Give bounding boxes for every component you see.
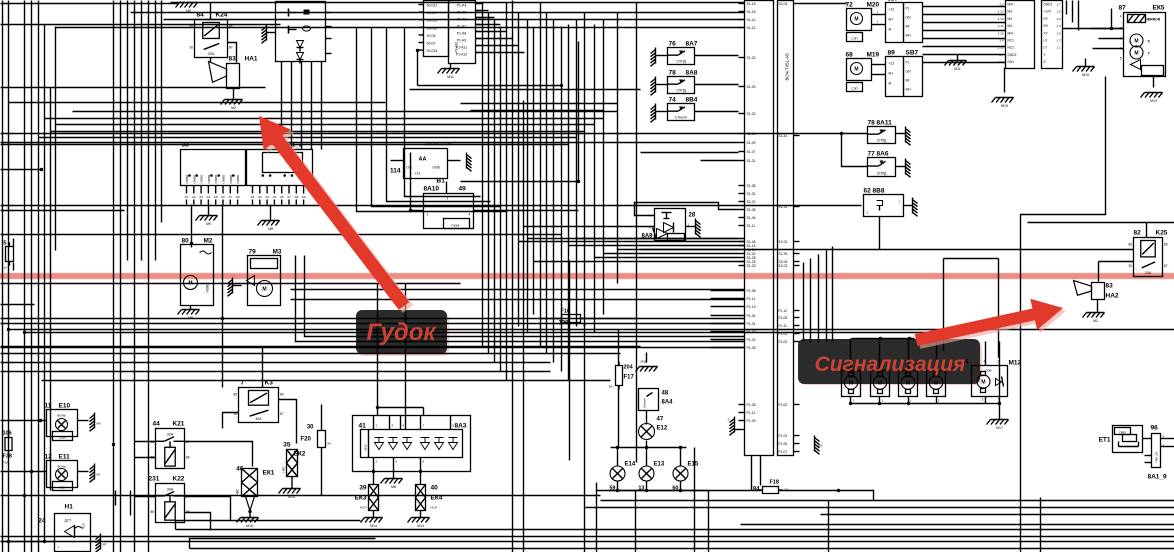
- svg-text:EК4: EК4: [431, 495, 443, 502]
- svg-text:M5: M5: [188, 316, 193, 320]
- svg-text:M2: M2: [1093, 319, 1098, 323]
- wire: [78, 471, 89, 473]
- wire: [641, 152, 739, 154]
- wire: [821, 514, 1174, 516]
- fuse F20: [301, 405, 332, 496]
- junction: [416, 49, 419, 52]
- motor M2 pump: [181, 238, 214, 310]
- label box Сигнализация: [800, 342, 982, 385]
- svg-text:PL: PL: [906, 7, 910, 11]
- wire: [134, 1, 136, 552]
- svg-text:Вкл/рег: Вкл/рег: [643, 398, 647, 408]
- svg-text:А6: А6: [221, 195, 225, 199]
- wire: [1072, 1, 1074, 23]
- wire: [908, 339, 910, 373]
- wire: [357, 29, 507, 212]
- svg-text:3: 3: [982, 398, 984, 402]
- svg-text:60: 60: [672, 486, 678, 492]
- svg-text:А8: А8: [236, 195, 240, 199]
- svg-text:M9: M9: [206, 222, 211, 226]
- BCM connector bus: [711, 1, 800, 456]
- svg-text:8А10: 8А10: [424, 186, 440, 193]
- wire: [680, 448, 682, 467]
- svg-text:M4-: M4-: [1008, 24, 1014, 28]
- wire: [1, 87, 266, 89]
- switch 8A11: [868, 120, 911, 146]
- wire: [1091, 28, 1124, 30]
- svg-text:86: 86: [186, 456, 190, 460]
- svg-text:ОМВБ: ОМВБ: [222, 175, 226, 184]
- svg-text:62 8В8: 62 8В8: [864, 188, 885, 195]
- svg-text:M3: M3: [273, 249, 282, 256]
- svg-text:E13: E13: [654, 462, 665, 468]
- svg-text:HA2: HA2: [1106, 293, 1119, 300]
- red arrow to horn HA1: [263, 119, 413, 313]
- svg-text:S1-02: S1-02: [747, 200, 756, 204]
- wire: [850, 339, 852, 373]
- svg-text:А4: А4: [265, 195, 269, 199]
- svg-text:33: 33: [182, 142, 190, 149]
- fuse F38: [3, 431, 13, 465]
- svg-text:83: 83: [229, 56, 237, 63]
- wire: [923, 54, 1006, 56]
- svg-text:М16: М16: [246, 524, 253, 528]
- wire: [1, 420, 47, 422]
- wire: [39, 137, 577, 139]
- wire: [533, 27, 535, 315]
- svg-text:1.7: 1.7: [1057, 3, 1062, 7]
- wire: [646, 448, 648, 467]
- wire: [832, 247, 834, 342]
- svg-text:1324: 1324: [59, 486, 66, 490]
- wire: [586, 507, 1174, 509]
- svg-text:ВНС: ВНС: [364, 443, 368, 450]
- svg-text:1.4: 1.4: [1057, 24, 1062, 28]
- svg-text:S0-D20: S0-D20: [427, 26, 438, 30]
- wire: [1146, 223, 1148, 238]
- svg-text:M19: M19: [1001, 104, 1008, 108]
- hatch ground: [90, 413, 101, 432]
- wire: [1040, 498, 1042, 552]
- svg-text:+12V: +12V: [1044, 10, 1052, 14]
- svg-text:114: 114: [390, 168, 401, 175]
- svg-text:20А: 20А: [208, 52, 215, 56]
- svg-text:С Кнопт: С Кнопт: [675, 116, 688, 120]
- turn motor 4: [927, 371, 946, 403]
- junction: [188, 174, 191, 177]
- junction: [7, 540, 10, 543]
- svg-text:ОМВБ: ОМВБ: [236, 175, 240, 184]
- svg-text:8А8: 8А8: [686, 70, 698, 77]
- svg-text:M: M: [981, 380, 985, 386]
- svg-text:30А: 30А: [167, 488, 174, 492]
- svg-text:F2-02: F2-02: [779, 403, 788, 407]
- svg-text:M: M: [849, 381, 853, 387]
- svg-text:41: 41: [359, 423, 367, 430]
- wire: [617, 13, 619, 284]
- hatch ground: [228, 278, 233, 297]
- svg-text:S0-D6: S0-D6: [427, 34, 436, 38]
- svg-text:K22: K22: [173, 476, 185, 483]
- switch block S5: [276, 2, 332, 64]
- svg-text:7,5А: 7,5А: [3, 461, 9, 465]
- svg-text:F18: F18: [770, 480, 779, 486]
- svg-text:2.11: 2.11: [998, 24, 1004, 28]
- svg-text:S1-32: S1-32: [747, 56, 756, 60]
- svg-text:S: S: [728, 418, 730, 422]
- wire: [1, 371, 551, 373]
- svg-text:ОМВБ: ОМВБ: [200, 175, 204, 184]
- hatch ground: [467, 153, 472, 172]
- svg-text:78 8А11: 78 8А11: [868, 120, 893, 127]
- svg-text:86: 86: [1164, 243, 1168, 247]
- pink highlight line: [0, 273, 1174, 279]
- svg-text:СЭП: СЭП: [851, 87, 857, 91]
- svg-text:S1-16: S1-16: [747, 10, 756, 14]
- svg-text:S1-12: S1-12: [747, 26, 756, 30]
- switch 8В4: [651, 97, 739, 123]
- wire: [879, 217, 881, 250]
- svg-text:S1-08: S1-08: [747, 208, 756, 212]
- wire: [879, 339, 881, 373]
- wire: [694, 448, 696, 552]
- svg-text:ФОНЬ: ФОНЬ: [57, 414, 66, 418]
- wire: [1, 353, 621, 355]
- wire: [51, 131, 585, 133]
- wire: [494, 20, 496, 363]
- svg-text:АА: АА: [419, 157, 427, 163]
- wire: [596, 483, 598, 552]
- svg-text:ГМЛ_Х9: ГМЛ_Х9: [1155, 451, 1159, 462]
- wire: [528, 238, 745, 240]
- wire: [148, 1, 150, 552]
- wire: [476, 52, 525, 54]
- horn HA1: [209, 56, 258, 100]
- svg-text:86: 86: [229, 25, 233, 29]
- svg-text:M20: M20: [867, 2, 880, 9]
- svg-text:72: 72: [846, 2, 854, 9]
- svg-text:ПЭБ: ПЭБ: [985, 369, 991, 373]
- svg-text:M3-: M3-: [1008, 10, 1014, 14]
- svg-text:59: 59: [609, 486, 615, 492]
- svg-text:E12: E12: [657, 426, 668, 432]
- svg-text:76: 76: [669, 41, 677, 48]
- wire: [569, 261, 571, 461]
- svg-text:106: 106: [3, 431, 12, 437]
- svg-text:А2: А2: [192, 195, 196, 199]
- svg-text:А1: А1: [185, 195, 189, 199]
- svg-text:М14: М14: [370, 524, 377, 528]
- svg-text:H1: H1: [65, 504, 74, 511]
- ground MZD: [636, 360, 658, 372]
- svg-text:P1-А11: P1-А11: [456, 46, 467, 50]
- svg-text:P1-11: P1-11: [747, 297, 756, 301]
- svg-text:М7: М7: [103, 543, 107, 547]
- wire: [418, 85, 562, 87]
- svg-text:MIRROR: MIRROR: [1147, 18, 1161, 22]
- wire: [850, 397, 852, 404]
- wire: [936, 397, 938, 404]
- junction: [616, 446, 619, 449]
- relay K3: [233, 380, 283, 423]
- svg-text:30: 30: [150, 494, 154, 498]
- wire: [127, 1, 129, 261]
- svg-text:ПКЗФ: ПКЗФ: [452, 224, 461, 228]
- lamp E13: [638, 462, 664, 492]
- svg-text:М6: М6: [97, 422, 101, 426]
- fuse F17: [609, 362, 635, 390]
- wire: [779, 491, 874, 501]
- svg-text:1.1: 1.1: [1057, 46, 1062, 50]
- svg-text:96070В-1АМР: 96070В-1АМР: [426, 142, 452, 147]
- svg-text:K25: K25: [1156, 230, 1168, 237]
- svg-text:96: 96: [1151, 425, 1159, 432]
- svg-text:S1-05: S1-05: [747, 132, 756, 136]
- red arrow to horn HA2: [918, 302, 1066, 349]
- svg-text:30: 30: [233, 412, 237, 416]
- wire: [161, 1, 163, 223]
- svg-text:5А: 5А: [583, 323, 587, 327]
- svg-text:30: 30: [150, 440, 154, 444]
- svg-text:F2-11: F2-11: [779, 324, 788, 328]
- svg-text:S2-31: S2-31: [779, 205, 788, 209]
- svg-text:P1-02: P1-02: [747, 338, 756, 342]
- wire: [524, 226, 655, 228]
- ground M19: [1073, 67, 1095, 78]
- wire: [1, 318, 745, 320]
- wire: [423, 408, 425, 416]
- wire: [646, 411, 648, 425]
- svg-text:МЗД: МЗД: [641, 360, 647, 364]
- svg-text:М8: М8: [391, 485, 396, 489]
- ground M2: [1083, 313, 1105, 324]
- svg-text:NC1: NC1: [1008, 39, 1015, 43]
- svg-text:НСП: НСП: [431, 506, 438, 510]
- svg-text:S1-29: S1-29: [747, 264, 756, 268]
- wire: [1093, 48, 1124, 50]
- wire: [9, 329, 1174, 331]
- wire: [923, 30, 1006, 32]
- junction: [679, 489, 682, 492]
- fuse F18: [753, 480, 788, 494]
- svg-text:S0-D24: S0-D24: [427, 49, 438, 53]
- svg-text:4: 4: [984, 360, 986, 364]
- relay K22: [149, 476, 190, 523]
- junction: [40, 168, 43, 171]
- wire: [55, 27, 57, 251]
- wire: [476, 38, 513, 40]
- svg-text:М2: М2: [819, 444, 823, 448]
- control unit 8A10: [411, 182, 579, 229]
- relay K25: [1128, 230, 1167, 277]
- svg-text:1.3: 1.3: [1057, 39, 1062, 43]
- svg-text:А3: А3: [258, 195, 262, 199]
- wire: [523, 101, 525, 552]
- wire: [646, 353, 648, 363]
- wire: [73, 111, 618, 113]
- svg-text:S2-39: S2-39: [779, 252, 788, 256]
- wire: [1021, 77, 1106, 552]
- lamp E11: [45, 454, 78, 491]
- svg-text:S: S: [700, 228, 702, 232]
- svg-text:1.6: 1.6: [1057, 10, 1062, 14]
- motor M19: [846, 52, 886, 92]
- svg-text:7: 7: [241, 380, 245, 387]
- junction: [372, 470, 375, 473]
- junction: [878, 402, 881, 405]
- svg-text:30: 30: [189, 45, 193, 49]
- wire: [410, 89, 641, 91]
- svg-text:1.2: 1.2: [1057, 17, 1062, 21]
- wire: [519, 241, 745, 243]
- wire: [120, 1, 122, 552]
- svg-text:M: M: [889, 82, 892, 86]
- ground M13: [408, 518, 430, 529]
- svg-text:ДСТ: ДСТ: [65, 519, 72, 523]
- svg-text:M2: M2: [231, 106, 236, 110]
- wire: [1, 142, 739, 144]
- wire: [569, 245, 745, 247]
- connector X2: [1042, 1, 1063, 69]
- wire: [488, 13, 490, 354]
- svg-text:M19: M19: [1150, 99, 1157, 103]
- svg-text:СППД: СППД: [877, 139, 887, 143]
- junction: [849, 402, 852, 405]
- ground M19: [1141, 93, 1163, 104]
- wire: [262, 347, 264, 388]
- svg-text:GN1: GN1: [1008, 60, 1015, 64]
- wire: [896, 166, 906, 168]
- wire: [852, 338, 915, 340]
- svg-text:M: M: [1134, 51, 1138, 57]
- svg-text:ЕК3: ЕК3: [355, 495, 367, 502]
- wire: [476, 31, 507, 33]
- wire: [512, 1, 514, 552]
- wire: [185, 497, 231, 521]
- junction: [879, 337, 882, 340]
- wire: [923, 14, 1006, 16]
- wire: [594, 25, 596, 333]
- svg-text:13: 13: [638, 486, 644, 492]
- junction: [217, 174, 220, 177]
- svg-text:M: M: [878, 381, 882, 387]
- svg-text:1324: 1324: [59, 436, 66, 440]
- svg-text:F2-01: F2-01: [779, 332, 788, 336]
- wire: [944, 258, 999, 260]
- junction: [376, 406, 379, 409]
- svg-text:85: 85: [150, 456, 154, 460]
- switch 8B8: [864, 188, 918, 217]
- wire: [405, 284, 407, 430]
- buzzer 8A9: [641, 209, 695, 241]
- svg-text:204: 204: [624, 365, 634, 371]
- svg-text:P1-05: P1-05: [747, 346, 756, 350]
- wire: [476, 17, 495, 19]
- wire: [1066, 1, 1068, 15]
- wire: [135, 457, 156, 459]
- svg-text:M8: M8: [268, 227, 273, 231]
- wire: [604, 253, 739, 255]
- svg-text:86: 86: [186, 510, 190, 514]
- wire: [171, 2, 745, 4]
- wire: [270, 205, 272, 221]
- svg-text:12: 12: [45, 454, 53, 461]
- wire: [1143, 438, 1152, 440]
- svg-text:S1-07: S1-07: [747, 150, 756, 154]
- hatch ground: [90, 464, 101, 483]
- svg-text:3: 3: [1120, 37, 1122, 41]
- junction: [645, 489, 648, 492]
- wire: [1078, 1, 1080, 31]
- wire: [896, 133, 906, 135]
- svg-text:2.15: 2.15: [998, 31, 1004, 35]
- wire: [923, 6, 1006, 8]
- svg-text:2.7: 2.7: [999, 53, 1004, 57]
- svg-text:11: 11: [45, 403, 52, 410]
- svg-text:Сигнализация: Сигнализация: [815, 353, 966, 376]
- junction: [190, 242, 193, 245]
- svg-text:78: 78: [669, 70, 677, 77]
- wire: [461, 181, 579, 183]
- svg-text:S0-D5: S0-D5: [427, 11, 436, 15]
- lamp E15: [672, 462, 698, 492]
- wire: [301, 62, 303, 150]
- svg-text:30А: 30А: [167, 433, 174, 437]
- wire: [476, 3, 483, 5]
- svg-text:74: 74: [669, 97, 677, 104]
- svg-text:F16: F16: [561, 309, 570, 315]
- wire: [597, 490, 763, 492]
- svg-text:IM: IM: [906, 79, 910, 83]
- svg-text:А4: А4: [207, 195, 211, 199]
- wire: [31, 1, 33, 552]
- heater EK4: [416, 485, 443, 518]
- svg-text:5: 5: [1120, 57, 1122, 61]
- svg-text:M: M: [854, 67, 858, 73]
- fuse F16: [558, 309, 587, 327]
- horn HA2: [1074, 281, 1119, 313]
- svg-text:GND: GND: [433, 166, 441, 170]
- wire: [1, 210, 125, 212]
- wire: [141, 1, 143, 261]
- wire: [686, 226, 696, 228]
- svg-text:2: 2: [427, 213, 429, 217]
- wire: [1, 323, 745, 325]
- wire: [222, 319, 224, 388]
- wire: [1, 144, 569, 146]
- wire: [923, 62, 1006, 64]
- svg-text:+12: +12: [889, 8, 895, 12]
- wire: [279, 400, 297, 444]
- switch 8A4: [639, 389, 674, 411]
- wire: [387, 29, 491, 202]
- svg-text:NC2: NC2: [1008, 46, 1015, 50]
- turn motor 3: [899, 371, 918, 403]
- svg-text:S2-02: S2-02: [779, 240, 788, 244]
- svg-text:M2: M2: [204, 238, 213, 245]
- svg-text:F20: F20: [301, 437, 312, 443]
- svg-text:S1-21: S1-21: [747, 159, 756, 163]
- junction: [409, 209, 412, 212]
- junction: [221, 317, 224, 320]
- wire: [130, 491, 132, 516]
- lamp E10: [45, 403, 78, 441]
- wire: [578, 42, 580, 182]
- svg-text:P1-А8: P1-А8: [457, 32, 467, 36]
- svg-text:P1-А12: P1-А12: [456, 53, 467, 57]
- svg-text:SВ6: SВ6: [888, 0, 898, 3]
- svg-text:48: 48: [662, 391, 669, 397]
